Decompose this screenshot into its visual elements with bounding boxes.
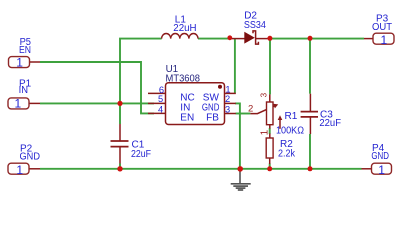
svg-text:OUT: OUT — [372, 22, 392, 33]
svg-text:22uH: 22uH — [173, 23, 196, 34]
svg-text:GND: GND — [20, 152, 41, 163]
svg-text:4: 4 — [158, 104, 163, 114]
svg-text:3: 3 — [225, 105, 230, 115]
svg-text:1: 1 — [16, 163, 23, 177]
svg-text:22uF: 22uF — [319, 118, 341, 129]
svg-text:1: 1 — [259, 129, 270, 135]
svg-text:GND: GND — [371, 151, 389, 162]
svg-text:R1: R1 — [285, 111, 298, 122]
svg-text:2: 2 — [225, 94, 230, 104]
svg-text:2: 2 — [248, 103, 253, 114]
svg-text:3: 3 — [259, 92, 268, 97]
svg-text:1: 1 — [380, 33, 387, 47]
svg-text:IN: IN — [19, 85, 28, 96]
svg-text:MT3608: MT3608 — [166, 73, 201, 84]
svg-text:1: 1 — [15, 97, 22, 111]
svg-text:1: 1 — [16, 55, 23, 69]
svg-text:22uF: 22uF — [131, 149, 151, 160]
svg-text:5: 5 — [158, 94, 163, 104]
svg-text:1: 1 — [225, 85, 230, 95]
svg-text:SS34: SS34 — [244, 20, 266, 31]
svg-text:FB: FB — [206, 112, 219, 123]
svg-text:1: 1 — [378, 163, 385, 177]
svg-text:2.2k: 2.2k — [278, 149, 296, 160]
svg-text:EN: EN — [180, 112, 194, 123]
svg-text:100KΩ: 100KΩ — [276, 126, 304, 137]
